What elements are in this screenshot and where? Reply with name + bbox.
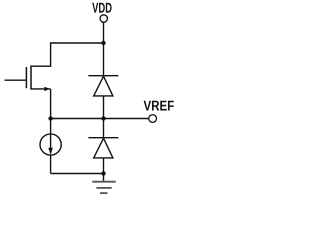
wire bottom horizontal: [51, 173, 104, 175]
wire source lead: [31, 88, 51, 90]
node junction dot left: [48, 116, 52, 120]
node junction dot top: [101, 41, 105, 45]
terminal VREF: [149, 115, 157, 123]
current source I1 arrow head: [48, 148, 53, 155]
wire right rail upper: [103, 43, 105, 76]
wire ground stub: [103, 174, 105, 182]
wire VDD stub: [103, 22, 105, 43]
diode D1 triangle: [94, 76, 113, 96]
wire VREF rail to D2: [103, 119, 105, 138]
transistor M1 channel bar: [30, 66, 32, 90]
wire gate lead: [5, 79, 26, 81]
wire D1 to VREF rail: [103, 96, 105, 119]
current source I1 arrow shaft: [50, 134, 52, 153]
ground bar 1: [92, 181, 116, 183]
terminal VDD: [100, 15, 107, 22]
ground bar 3: [100, 192, 107, 194]
wire drain riser: [50, 42, 52, 66]
node junction dot center: [101, 116, 105, 120]
diode D2 bar: [88, 137, 118, 139]
node VREF label: [144, 101, 174, 111]
wire top horizontal: [51, 42, 104, 44]
transistor M1 source arrow: [44, 87, 50, 91]
wire VREF rail: [51, 118, 149, 120]
node junction dot bottom: [101, 171, 105, 175]
wire drain lead: [31, 65, 51, 67]
wire source down: [50, 89, 52, 119]
current source I1 circle: [40, 134, 61, 155]
wire left rail through source: [50, 119, 52, 174]
node VDD label: [92, 3, 111, 13]
diode D2 triangle: [94, 138, 113, 158]
transistor M1 gate bar: [25, 67, 27, 88]
wire D2 to bottom: [103, 158, 105, 174]
diode D1 bar: [88, 75, 118, 77]
ground bar 2: [96, 187, 111, 189]
